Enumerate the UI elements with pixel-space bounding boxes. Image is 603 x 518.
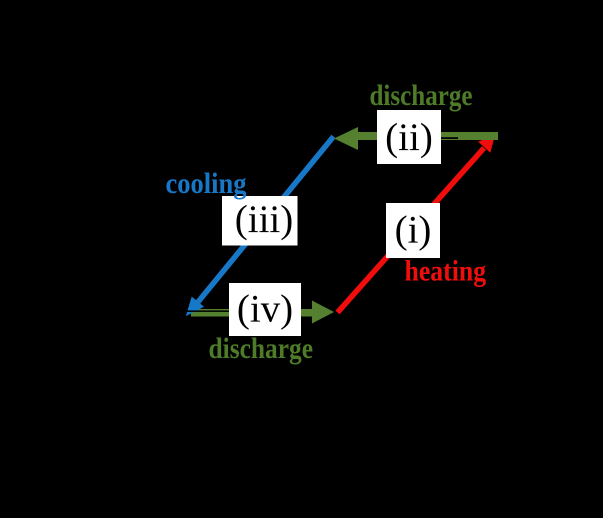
svg-text:heating: heating	[405, 255, 487, 288]
wire: red heating line (i) diagonal	[338, 135, 496, 313]
black edge overlap on green shaft (iv)	[184, 310, 230, 312]
green discharge arrow (iv), pointing right	[191, 301, 334, 324]
black edge overlap on green shaft (ii)	[441, 137, 458, 139]
svg-text:(ii): (ii)	[385, 116, 433, 159]
svg-text:cooling: cooling	[166, 167, 247, 200]
arrowhead of red heating arrow	[478, 135, 495, 153]
svg-text:discharge: discharge	[209, 332, 314, 365]
label box (ii)	[377, 110, 441, 164]
arrowhead of blue cooling arrow	[186, 297, 204, 317]
svg-text:(iii): (iii)	[235, 198, 293, 241]
svg-text:discharge: discharge	[370, 79, 473, 112]
svg-text:(iv): (iv)	[237, 288, 293, 331]
green discharge arrow (ii), pointing left	[334, 127, 498, 150]
svg-text:(i): (i)	[395, 209, 432, 252]
label box (iii)	[222, 196, 298, 246]
label box (iv)	[229, 283, 301, 336]
wire: blue cooling line (iii) top-left diagonal	[186, 137, 334, 317]
label box (i)	[386, 203, 440, 258]
